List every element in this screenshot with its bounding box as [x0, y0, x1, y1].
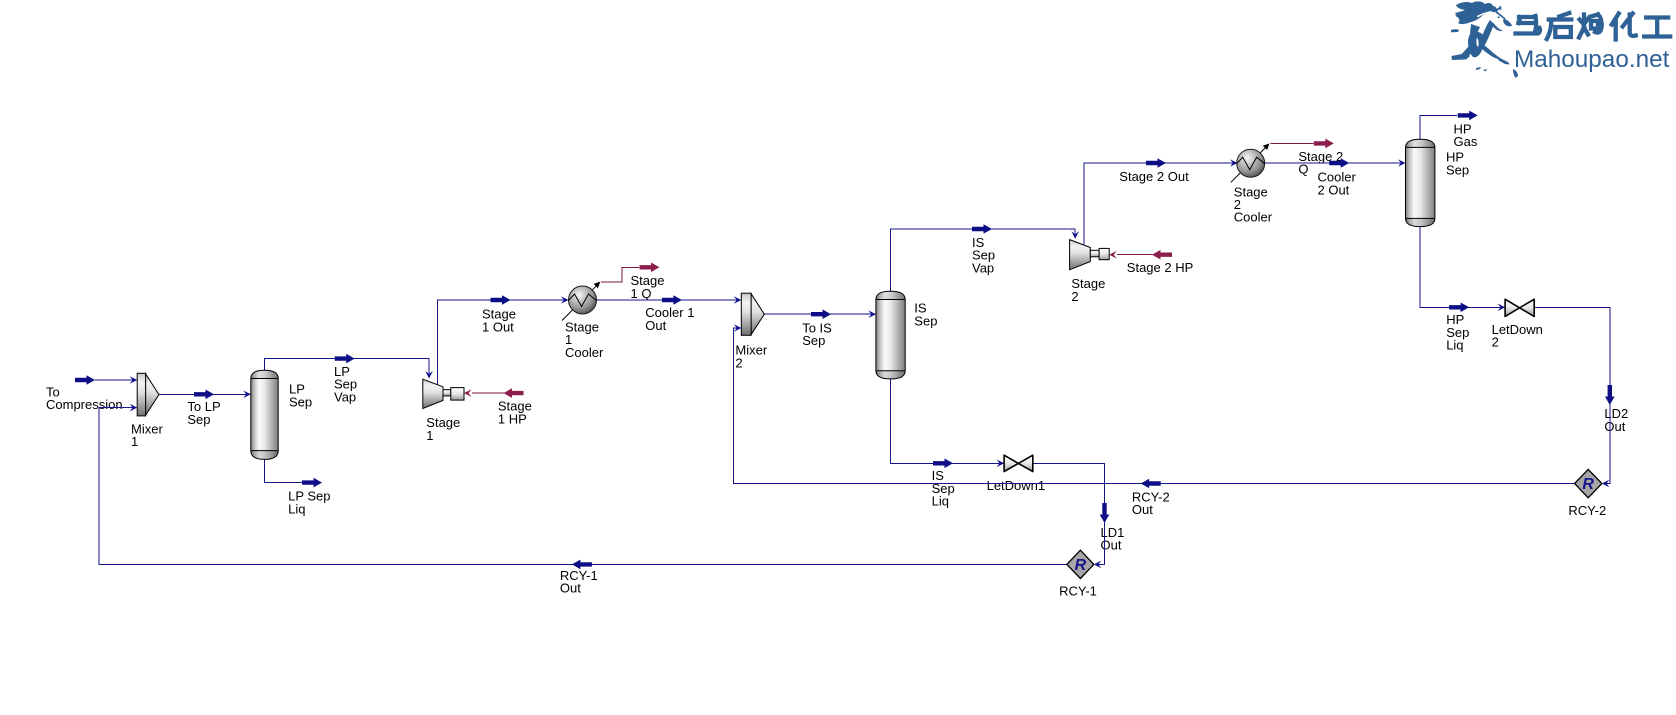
svg-text:HPSep: HPSep [1446, 150, 1469, 178]
svg-text:Cooler2 Out: Cooler2 Out [1318, 170, 1357, 198]
svg-text:RCY-2: RCY-2 [1568, 503, 1606, 518]
svg-text:ISSep: ISSep [914, 301, 937, 329]
svg-text:Stage1 HP: Stage1 HP [498, 399, 532, 427]
svg-text:ISSepLiq: ISSepLiq [932, 468, 955, 508]
svg-text:R: R [1582, 476, 1594, 493]
svg-text:LPSep: LPSep [289, 382, 312, 410]
svg-text:Cooler 1Out: Cooler 1Out [645, 305, 694, 333]
svg-text:ISSepVap: ISSepVap [972, 235, 995, 275]
svg-text:Mahoupao.net: Mahoupao.net [1514, 46, 1670, 73]
svg-text:LetDown1: LetDown1 [987, 478, 1046, 493]
svg-text:R: R [1075, 557, 1087, 574]
svg-text:Stage2Cooler: Stage2Cooler [1234, 184, 1273, 224]
svg-text:To LPSep: To LPSep [187, 399, 220, 427]
svg-text:Mixer2: Mixer2 [735, 343, 767, 371]
svg-text:RCY-2Out: RCY-2Out [1132, 490, 1170, 518]
svg-text:Stage1 Q: Stage1 Q [631, 273, 665, 301]
svg-text:LD2Out: LD2Out [1604, 406, 1628, 434]
svg-text:Stage 2 Out: Stage 2 Out [1119, 169, 1189, 184]
svg-text:HPSepLiq: HPSepLiq [1446, 312, 1469, 352]
svg-text:To ISSep: To ISSep [802, 321, 832, 349]
svg-text:RCY-1Out: RCY-1Out [560, 568, 598, 596]
svg-text:Stage1Cooler: Stage1Cooler [565, 319, 604, 359]
svg-text:LPSepVap: LPSepVap [334, 364, 357, 404]
svg-text:Stage 2 HP: Stage 2 HP [1127, 260, 1194, 275]
svg-text:LP SepLiq: LP SepLiq [288, 489, 330, 517]
svg-text:Stage1: Stage1 [426, 415, 460, 443]
svg-text:RCY-1: RCY-1 [1059, 584, 1097, 599]
svg-text:Stage2: Stage2 [1071, 276, 1105, 304]
svg-text:LetDown2: LetDown2 [1492, 322, 1543, 350]
svg-text:Mixer1: Mixer1 [131, 421, 163, 449]
svg-text:HPGas: HPGas [1454, 121, 1478, 149]
svg-text:Stage1 Out: Stage1 Out [482, 307, 516, 335]
